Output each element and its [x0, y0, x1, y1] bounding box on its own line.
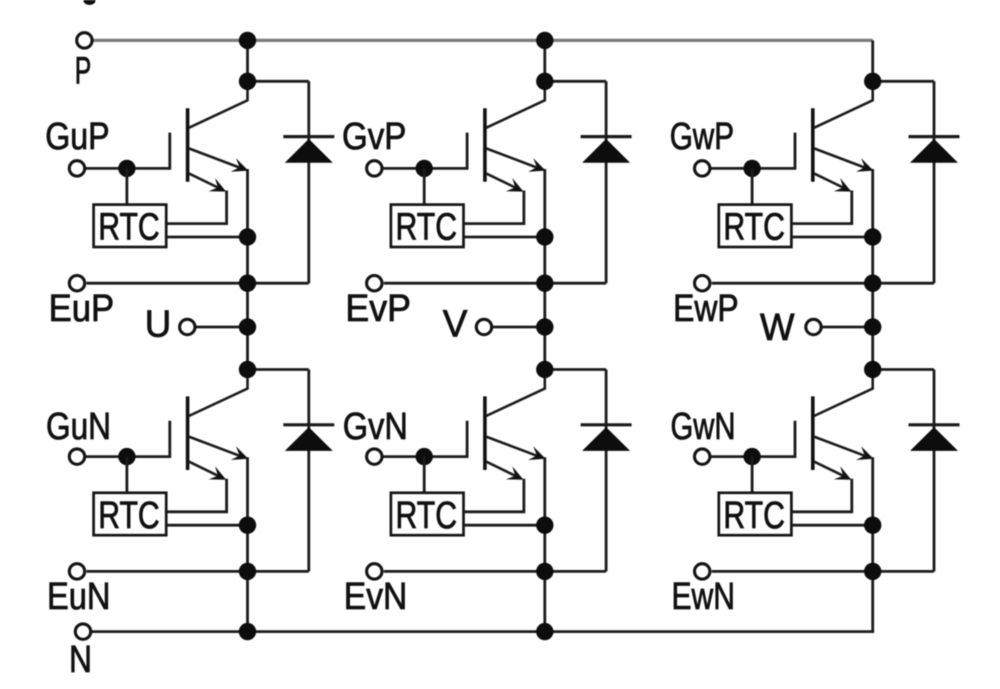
- svg-text:EwN: EwN: [672, 576, 736, 618]
- wire P rail drop to upper collector (w phase): [871, 40, 874, 81]
- diode D5 cathode bar: [581, 423, 632, 426]
- emitter auxiliary line (V-lower): [384, 570, 606, 573]
- wire diode column vertical (U-upper): [307, 81, 310, 283]
- svg-text:GuN: GuN: [46, 406, 111, 448]
- transistor Q1 main emitter lead with arrow: [189, 148, 245, 169]
- wire RTC lower output to emitter rail (V-upper): [464, 236, 545, 239]
- transistor Q2 main emitter lead with arrow: [486, 148, 542, 169]
- diode D4 cathode bar: [283, 423, 334, 426]
- wire P rail drop to upper collector (v phase): [543, 40, 546, 81]
- emitter auxiliary line (U-lower): [87, 570, 309, 573]
- diode D5 anode triangle: [582, 427, 630, 451]
- wire collector node to diode column (W-lower): [873, 368, 934, 371]
- collector node junction dot (U-upper): [239, 73, 256, 90]
- wire collector node to diode column (V-upper): [545, 80, 606, 83]
- wire collector node to diode column (W-upper): [873, 80, 934, 83]
- collector node junction dot (V-upper): [536, 73, 553, 90]
- emitter sense terminal EwP: [695, 276, 710, 291]
- svg-text:EuN: EuN: [47, 576, 111, 618]
- transistor Q1 body bar: [186, 108, 190, 182]
- svg-text:GvP: GvP: [342, 116, 406, 158]
- transistor Q3 collector lead: [814, 81, 873, 128]
- junction dot on P rail (u phase): [239, 32, 256, 49]
- output terminal V circle: [476, 319, 491, 334]
- RTC block (U-lower): [94, 493, 167, 537]
- wire sense emitter to RTC (V-upper): [464, 191, 524, 224]
- wire diode column vertical (V-upper): [605, 81, 608, 283]
- wire collector node to diode column (U-upper): [248, 80, 309, 83]
- transistor Q6 body bar: [811, 396, 815, 470]
- emitter auxiliary line (V-upper): [384, 282, 606, 285]
- transistor Q4 gate bar and lead: [86, 421, 170, 457]
- junction dot emitter aux on rail (W-lower): [864, 563, 881, 580]
- transistor Q4 collector lead: [189, 370, 248, 417]
- junction dot emitter aux on rail (V-upper): [536, 275, 553, 292]
- phase rail lower emitter to N rail (u phase): [246, 457, 249, 631]
- junction dot RTC output on emitter rail (W-lower): [864, 517, 881, 534]
- gate terminal GuN: [69, 449, 84, 464]
- P terminal circle: [77, 33, 92, 48]
- wire gate junction to RTC top (U-lower): [126, 457, 129, 493]
- diode D4 anode triangle: [285, 427, 333, 451]
- wire collector node to diode column (U-lower): [248, 368, 309, 371]
- diode D6 cathode bar: [909, 423, 960, 426]
- svg-text:RTC: RTC: [98, 495, 160, 537]
- junction dot on P rail (v phase): [536, 32, 553, 49]
- gate terminal GuP: [69, 161, 84, 176]
- junction dot output U on rail: [239, 318, 256, 335]
- transistor Q6 main emitter lead with arrow: [814, 437, 870, 458]
- diode D2 cathode bar: [581, 135, 632, 138]
- wire gate junction to RTC top (V-lower): [423, 457, 426, 493]
- phase rail lower emitter to N rail (w phase): [871, 457, 874, 631]
- svg-text:GwN: GwN: [671, 406, 736, 448]
- wire diode column vertical (W-lower): [933, 370, 936, 572]
- gate junction dot (V-upper): [416, 160, 433, 177]
- svg-text:V: V: [443, 304, 468, 346]
- junction dot output V on rail: [536, 318, 553, 335]
- transistor Q3 gate bar and lead: [711, 133, 795, 169]
- transistor Q3 main emitter lead with arrow: [814, 148, 870, 169]
- transistor Q5 gate bar and lead: [383, 421, 467, 457]
- diode D3 anode triangle: [910, 139, 958, 163]
- emitter auxiliary line (W-upper): [712, 282, 934, 285]
- junction dot on N rail (v phase): [536, 623, 553, 640]
- gate junction dot (U-upper): [118, 160, 135, 177]
- transistor Q5 sense emitter lead with arrow: [486, 462, 520, 479]
- transistor Q5 main emitter lead with arrow: [486, 437, 542, 458]
- transistor Q2 collector lead: [486, 81, 545, 128]
- wire diode column vertical (U-lower): [307, 370, 310, 572]
- svg-text:EuP: EuP: [49, 288, 115, 330]
- wire collector node to diode column (V-lower): [545, 368, 606, 371]
- svg-text:RTC: RTC: [723, 207, 785, 249]
- N terminal circle: [75, 624, 90, 639]
- cropped text artifact at top edge: [84, 0, 96, 5]
- gate junction dot (W-upper): [743, 160, 760, 177]
- svg-text:RTC: RTC: [723, 495, 785, 537]
- gate terminal GwN: [695, 449, 710, 464]
- diode D3 cathode bar: [909, 135, 960, 138]
- gate junction dot (V-lower): [416, 448, 433, 465]
- junction dot emitter aux on rail (U-upper): [239, 275, 256, 292]
- svg-text:EvP: EvP: [345, 288, 411, 330]
- wire diode column vertical (V-lower): [605, 370, 608, 572]
- emitter sense terminal EvP: [367, 276, 382, 291]
- junction dot output W on rail: [864, 318, 881, 335]
- diode D6 anode triangle: [910, 427, 958, 451]
- emitter sense terminal EuP: [69, 276, 84, 291]
- junction dot on N rail (u phase): [239, 623, 256, 640]
- N bus rail (bottom): [91, 630, 874, 633]
- wire sense emitter to RTC (U-lower): [166, 479, 226, 512]
- wire sense emitter to RTC (V-lower): [464, 479, 524, 512]
- RTC block (V-upper): [391, 205, 464, 249]
- junction dot RTC output on emitter rail (U-lower): [239, 517, 256, 534]
- wire output V to phase rail: [492, 326, 545, 329]
- emitter sense terminal EuN: [69, 564, 84, 579]
- wire gate junction to RTC top (V-upper): [423, 168, 426, 204]
- gate terminal GvP: [367, 161, 382, 176]
- junction dot RTC output on emitter rail (U-upper): [239, 228, 256, 245]
- svg-text:U: U: [145, 303, 172, 345]
- junction dot RTC output on emitter rail (W-upper): [864, 228, 881, 245]
- emitter auxiliary line (W-lower): [712, 570, 934, 573]
- junction dot RTC output on emitter rail (V-lower): [536, 517, 553, 534]
- transistor Q2 gate bar and lead: [383, 133, 467, 169]
- diode D1 cathode bar: [283, 135, 334, 138]
- phase rail upper emitter to lower collector (v phase): [543, 169, 546, 370]
- svg-text:RTC: RTC: [396, 495, 458, 537]
- transistor Q1 collector lead: [189, 81, 248, 128]
- svg-text:GwP: GwP: [670, 116, 734, 158]
- svg-text:GuP: GuP: [45, 116, 109, 158]
- svg-text:RTC: RTC: [396, 207, 458, 249]
- transistor Q3 sense emitter lead with arrow: [814, 173, 848, 190]
- junction dot emitter aux on rail (U-lower): [239, 563, 256, 580]
- svg-text:P: P: [75, 51, 92, 93]
- junction dot emitter aux on rail (V-lower): [536, 563, 553, 580]
- transistor Q6 collector lead: [814, 370, 873, 417]
- wire RTC lower output to emitter rail (W-lower): [792, 524, 873, 527]
- transistor Q6 gate bar and lead: [711, 421, 795, 457]
- emitter sense terminal EwN: [695, 564, 710, 579]
- svg-text:N: N: [69, 639, 92, 681]
- gate terminal GvN: [367, 449, 382, 464]
- wire RTC lower output to emitter rail (U-upper): [166, 236, 247, 239]
- output terminal W circle: [806, 319, 821, 334]
- emitter auxiliary line (U-upper): [87, 282, 309, 285]
- diode D2 anode triangle: [582, 139, 630, 163]
- transistor Q6 sense emitter lead with arrow: [814, 462, 848, 479]
- RTC block (V-lower): [391, 493, 464, 537]
- wire diode column vertical (W-upper): [933, 81, 936, 283]
- output terminal U circle: [180, 319, 195, 334]
- gate junction dot (U-lower): [118, 448, 135, 465]
- transistor Q3 body bar: [811, 108, 815, 182]
- collector node junction dot (V-lower): [536, 361, 553, 378]
- svg-text:W: W: [760, 307, 795, 349]
- wire P rail drop to upper collector (u phase): [246, 40, 249, 81]
- svg-text:EvN: EvN: [344, 576, 408, 618]
- transistor Q4 sense emitter lead with arrow: [189, 462, 223, 479]
- collector node junction dot (U-lower): [239, 361, 256, 378]
- diode D1 anode triangle: [285, 139, 333, 163]
- wire RTC lower output to emitter rail (U-lower): [166, 524, 247, 527]
- phase rail upper emitter to lower collector (w phase): [871, 169, 874, 370]
- transistor Q5 body bar: [483, 396, 487, 470]
- gate terminal GwP: [695, 161, 710, 176]
- wire RTC lower output to emitter rail (W-upper): [792, 236, 873, 239]
- transistor Q4 body bar: [186, 396, 190, 470]
- wire sense emitter to RTC (W-upper): [792, 191, 852, 224]
- wire gate junction to RTC top (W-upper): [751, 168, 754, 204]
- svg-text:GvN: GvN: [343, 406, 408, 448]
- transistor Q5 collector lead: [486, 370, 545, 417]
- transistor Q2 sense emitter lead with arrow: [486, 173, 520, 190]
- phase rail upper emitter to lower collector (u phase): [246, 169, 249, 370]
- transistor Q1 gate bar and lead: [86, 133, 170, 169]
- transistor Q4 main emitter lead with arrow: [189, 437, 245, 458]
- wire output W to phase rail: [822, 326, 873, 329]
- RTC block (U-upper): [94, 205, 167, 249]
- collector node junction dot (W-lower): [864, 361, 881, 378]
- phase rail lower emitter to N rail (v phase): [543, 457, 546, 631]
- RTC block (W-lower): [719, 493, 792, 537]
- RTC block (W-upper): [719, 205, 792, 249]
- junction dot RTC output on emitter rail (V-upper): [536, 228, 553, 245]
- collector node junction dot (W-upper): [864, 73, 881, 90]
- wire gate junction to RTC top (W-lower): [751, 457, 754, 493]
- transistor Q1 sense emitter lead with arrow: [189, 173, 223, 190]
- junction dot emitter aux on rail (W-upper): [864, 275, 881, 292]
- wire sense emitter to RTC (W-lower): [792, 479, 852, 512]
- P bus rail (top): [93, 39, 873, 42]
- emitter sense terminal EvN: [367, 564, 382, 579]
- transistor Q2 body bar: [483, 108, 487, 182]
- gate junction dot (W-lower): [743, 448, 760, 465]
- wire gate junction to RTC top (U-upper): [126, 168, 129, 204]
- svg-text:RTC: RTC: [98, 207, 160, 249]
- wire sense emitter to RTC (U-upper): [166, 191, 226, 224]
- wire RTC lower output to emitter rail (V-lower): [464, 524, 545, 527]
- wire output U to phase rail: [195, 326, 247, 329]
- svg-text:EwP: EwP: [673, 288, 739, 330]
